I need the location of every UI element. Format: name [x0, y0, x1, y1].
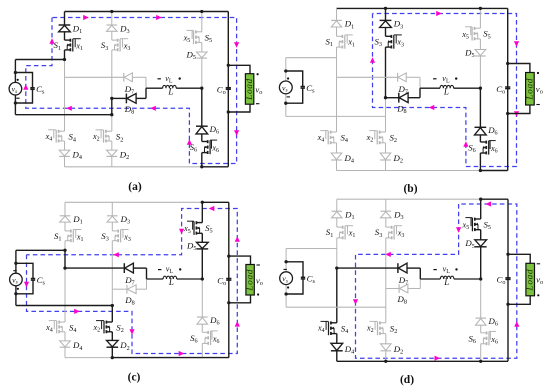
- vs polarity minus (c): [13, 270, 16, 272]
- capacitor Co (a): [226, 88, 231, 90]
- wire D4 to bottom rail (a): [64, 156, 66, 166]
- label Co (a): [217, 85, 226, 97]
- label S6 (a): [190, 142, 198, 154]
- wire S3 source lead down to D8 node (d): [385, 238, 387, 289]
- label D7 (c): [124, 275, 134, 287]
- diode D4 (c): [60, 341, 71, 347]
- load box (c): [246, 265, 256, 296]
- capacitor Co (b): [505, 87, 510, 89]
- label S2 (d): [390, 323, 398, 335]
- wire vs- horizontal (b): [286, 115, 386, 117]
- vs polarity dot (a): [17, 79, 19, 81]
- wire vs+ horizontal (a): [15, 59, 64, 61]
- transistor S2 (c): [96, 321, 112, 334]
- label D5 (b): [464, 47, 474, 59]
- wire S2 drain lead (b): [385, 116, 387, 132]
- wire S4 source to D4 (c): [64, 332, 66, 341]
- diode D1 (d): [332, 211, 343, 218]
- wire D7 row (c): [65, 268, 147, 279]
- diode D5 (c): [197, 242, 209, 249]
- capacitor Cs (d): [301, 277, 305, 279]
- load polarity dot (d): [537, 294, 539, 296]
- svg-text:L: L: [167, 86, 173, 96]
- vs polarity minus (d): [284, 268, 287, 270]
- wire S5 drain lead (b): [479, 8, 481, 28]
- wire top rail right segment (c): [202, 201, 229, 203]
- wire bottom rail mid (d): [386, 360, 481, 362]
- diode D2 (a): [107, 150, 118, 156]
- load polarity minus (c): [257, 264, 260, 266]
- label S4 (c): [69, 323, 77, 335]
- diode D6 (a): [196, 126, 208, 134]
- label x5 gate (a): [183, 33, 191, 44]
- svg-text:(b): (b): [403, 183, 417, 195]
- wire S5 drain lead (a): [201, 12, 203, 32]
- wire S6 source to bottom rail (c): [201, 343, 203, 357]
- label Cs (d): [307, 274, 316, 286]
- wire S2 source to D2 (b): [385, 143, 387, 153]
- label D6 (a): [209, 124, 219, 136]
- diode D2 (d): [381, 344, 392, 351]
- label vL dot (a): [179, 77, 181, 79]
- wire bottom rail left (d): [337, 360, 386, 362]
- label D4 (b): [344, 153, 354, 165]
- wire vs+ horizontal (b): [286, 57, 337, 59]
- vs polarity minus (a): [16, 97, 19, 99]
- label D3 (a): [119, 23, 129, 35]
- wire leg-A drain lead (c): [64, 202, 66, 231]
- label D2 (c): [119, 340, 129, 352]
- wire leg-A mid upper (d): [336, 249, 338, 269]
- diode D4 (a): [59, 150, 70, 156]
- wire S3 source lead down to D8 node (b): [385, 47, 387, 98]
- diode D1 (b): [331, 20, 342, 27]
- wire D7 row (d): [337, 268, 421, 279]
- label x4 gate (b): [317, 133, 325, 144]
- label L (d): [443, 277, 449, 287]
- label x2 gate (b): [366, 133, 374, 144]
- wire bottom rail right (d): [481, 360, 508, 362]
- label D1 (a): [72, 23, 82, 35]
- label D3 (d): [393, 210, 403, 222]
- current direction arrows (b): [370, 11, 519, 147]
- wire S6 source to bottom rail (d): [480, 344, 482, 362]
- wire S5 drain lead (c): [201, 202, 203, 222]
- capacitor Co (c): [226, 279, 231, 281]
- label L (b): [443, 86, 449, 96]
- diode D1 (a): [59, 25, 71, 32]
- label x3 gate (a): [123, 42, 131, 53]
- wire top rail right segment (b): [480, 7, 507, 9]
- vs polarity minus (b): [287, 96, 290, 98]
- junction node dots (d): [284, 198, 509, 363]
- label S3 (d): [375, 227, 383, 239]
- wire S5 source to D5 (a): [201, 43, 203, 53]
- wire S4 source to D4 (a): [64, 141, 66, 150]
- label D7 (d): [398, 275, 408, 287]
- transistor S6 (c): [202, 331, 217, 345]
- label vo (a): [255, 85, 262, 97]
- caption (d): [400, 374, 414, 386]
- wire Co leg (d): [507, 199, 509, 361]
- wire dashed current-path loop (b): [373, 14, 517, 167]
- transistor S4 (a): [48, 130, 64, 143]
- wire S4 drain lead (d): [336, 322, 338, 324]
- svg-text:L: L: [443, 86, 449, 96]
- transistor S1 (d): [337, 226, 353, 240]
- label S5 (b): [483, 29, 491, 41]
- label x3 gate (b): [396, 38, 404, 49]
- transistor S2 (a): [96, 130, 112, 143]
- wire inductor row (c): [147, 278, 203, 280]
- wire D8 row (c): [112, 279, 146, 289]
- wire D6 to S6 (c): [201, 324, 203, 332]
- diode D8 (c): [127, 285, 136, 294]
- wire leg-A mid upper (c): [64, 250, 66, 268]
- wire vs+ horizontal (c): [16, 249, 65, 251]
- svg-text:Load: Load: [245, 78, 255, 101]
- wire leg-B between D8 node and vs- (a): [111, 98, 113, 114]
- label Cs (a): [36, 84, 45, 96]
- transistor S2 (d): [370, 321, 386, 335]
- diode D6 (d): [475, 318, 486, 325]
- wire top rail right segment (a): [202, 11, 229, 13]
- svg-text:(d): (d): [400, 374, 414, 386]
- label D8 (d): [397, 294, 407, 306]
- wire D6 to S6 (a): [201, 133, 203, 141]
- wire D7 row (b): [337, 77, 421, 88]
- diode D8 (b): [399, 93, 408, 103]
- load polarity dot (a): [257, 73, 259, 75]
- wire inductor row (a): [146, 87, 202, 89]
- svg-text:L: L: [168, 277, 174, 287]
- wire D4 to bottom rail (b): [336, 160, 338, 171]
- label D8 (a): [124, 104, 134, 116]
- wire D8 row (b): [386, 88, 421, 98]
- label D5 (a): [186, 50, 196, 62]
- wire S4 source to D4 (d): [336, 334, 338, 344]
- wire Co leg (b): [507, 8, 509, 170]
- wire S1 source lead (a): [64, 50, 66, 60]
- transistor S5 (b): [465, 27, 480, 41]
- label vL (c): [166, 265, 174, 276]
- label D4 (c): [72, 340, 82, 352]
- wire load branch bottom (d): [508, 296, 530, 305]
- diode D3 (a): [107, 25, 118, 31]
- wire leg-A mid lower (c): [64, 268, 66, 322]
- wire S2 drain lead (c): [111, 306, 113, 323]
- load polarity minus (a): [256, 103, 259, 105]
- transistor S3 (a): [112, 39, 128, 52]
- wire bottom rail left (b): [337, 170, 386, 172]
- junction node dots (c): [14, 201, 230, 360]
- label S1 (d): [326, 227, 334, 239]
- wire S4 drain lead (a): [64, 130, 66, 132]
- wire S4 source to D4 (b): [336, 143, 338, 153]
- label D2 (b): [393, 153, 403, 165]
- label S2 (c): [116, 323, 124, 335]
- wire Co leg (a): [227, 12, 229, 167]
- wire D8 row (a): [112, 88, 146, 98]
- wire D6 to S6 (b): [479, 134, 481, 142]
- wire S1 source lead (c): [64, 241, 66, 251]
- label x6 gate (c): [212, 334, 220, 345]
- wire leg-A mid upper (b): [336, 58, 338, 78]
- caption (a): [128, 181, 142, 193]
- wire leg-B drain lead (a): [111, 12, 113, 41]
- label x5 gate (d): [462, 221, 470, 232]
- wire Cs loop (a): [15, 73, 32, 104]
- label S5 (d): [484, 220, 492, 232]
- svg-text:L: L: [443, 277, 449, 287]
- wire leg-B drain lead (c): [111, 202, 113, 231]
- diode D7 (b): [398, 73, 407, 82]
- label S1 (c): [54, 231, 62, 243]
- label S4 (d): [341, 323, 349, 335]
- caption (b): [403, 183, 417, 195]
- label S4 (a): [69, 132, 77, 144]
- wire S5 source to D5 (b): [479, 39, 481, 50]
- label x1 gate (a): [75, 42, 83, 53]
- wire S3 source lead down to D8 node (c): [111, 241, 113, 290]
- wire leg-A drain lead (a): [64, 12, 66, 41]
- junction node dots (b): [284, 7, 509, 172]
- wire source left leg (d): [285, 249, 287, 308]
- label x5 gate (b): [461, 30, 469, 41]
- capacitor Cs (a): [30, 88, 34, 90]
- label vL dot (d): [455, 268, 457, 270]
- wire D5 to L node (b): [479, 56, 481, 88]
- label vL (a): [165, 74, 173, 85]
- wire leg-B between D8 node and vs- (c): [111, 289, 113, 305]
- current direction arrows (c): [24, 206, 240, 356]
- wire load branch top (d): [508, 254, 530, 263]
- load box (d): [526, 263, 536, 296]
- wire top rail left segment (b): [337, 7, 481, 9]
- label vo (b): [536, 84, 543, 96]
- label vo (c): [256, 275, 263, 287]
- wire leg-B drain lead (d): [385, 199, 387, 227]
- wire bottom rail right (b): [480, 170, 507, 172]
- label x2 gate (c): [92, 323, 100, 334]
- wire S2 drain lead (a): [111, 115, 113, 132]
- transistor S6 (d): [481, 331, 496, 345]
- wire S2 source to D2 (a): [111, 141, 113, 150]
- label vo (d): [536, 275, 543, 287]
- label D3 (b): [393, 19, 403, 31]
- wire D7 row (a): [65, 77, 147, 88]
- label S2 (a): [116, 132, 124, 144]
- wire leg-B drain lead (b): [385, 8, 387, 36]
- transistor S1 (b): [337, 35, 353, 49]
- wire vs- horizontal (d): [286, 306, 386, 308]
- svg-text:Load: Load: [525, 78, 535, 101]
- load polarity minus (b): [536, 104, 539, 106]
- wire load branch bottom (b): [508, 105, 530, 114]
- capacitor Cs (c): [31, 279, 35, 281]
- transistor S2 (b): [369, 131, 385, 145]
- wire Co leg (c): [228, 202, 230, 357]
- wire dashed current-path loop (a): [26, 18, 237, 164]
- wire vs- horizontal (a): [15, 114, 111, 116]
- transistor S4 (d): [321, 321, 337, 335]
- label D8 (b): [396, 103, 406, 115]
- transistor S4 (b): [320, 131, 336, 145]
- label D6 (c): [209, 315, 219, 327]
- wire load branch top (a): [228, 65, 250, 73]
- wire dashed current-path loop (c): [27, 209, 238, 354]
- transistor S3 (d): [386, 226, 402, 240]
- label x1 gate (b): [347, 38, 355, 49]
- diode D5 (b): [475, 50, 486, 57]
- wire D5 to L node (c): [201, 249, 203, 279]
- svg-text:(a): (a): [128, 181, 142, 193]
- transistor S5 (c): [187, 221, 202, 235]
- load polarity dot (b): [537, 72, 539, 74]
- label x6 gate (a): [211, 144, 219, 155]
- wire bottom rail right (a): [202, 166, 229, 168]
- diode D8 (a): [126, 94, 136, 104]
- label Cs (b): [306, 83, 315, 95]
- label Cs (c): [37, 275, 46, 287]
- svg-text:(c): (c): [128, 372, 141, 384]
- wire D2 to bottom rail (a): [111, 156, 113, 166]
- wire S2 source to D2 (d): [385, 334, 387, 344]
- wire S5 source to D5 (d): [480, 230, 482, 241]
- voltage source vs (a): [9, 82, 22, 95]
- inductor L (b): [440, 85, 454, 88]
- wire D2 to bottom rail (b): [385, 160, 387, 171]
- transistor S6 (b): [480, 141, 495, 155]
- wire S6 source to bottom rail (a): [201, 153, 203, 167]
- wire dashed current-path loop (d): [356, 204, 517, 358]
- label D5 (c): [186, 240, 196, 252]
- wire load branch top (b): [508, 64, 530, 73]
- wire S2 drain lead (d): [385, 307, 387, 323]
- diode D1 (c): [60, 216, 71, 222]
- junction node dots (a): [14, 10, 230, 169]
- label D4 (a): [72, 149, 82, 161]
- wire D8 row (d): [386, 279, 421, 289]
- diode D6 (c): [197, 317, 208, 324]
- wire leg-B between D8 node and vs- (d): [385, 289, 387, 308]
- current direction arrows (a): [23, 15, 239, 145]
- wire S2 source to D2 (c): [111, 332, 113, 341]
- label x2 gate (d): [366, 324, 374, 335]
- wire L node to D6 (d): [480, 279, 482, 318]
- label vL (b): [442, 74, 450, 85]
- wire source left leg (a): [14, 60, 16, 115]
- label D2 (d): [393, 344, 403, 356]
- svg-text:Load: Load: [246, 269, 256, 292]
- label x1 gate (c): [76, 232, 84, 243]
- voltage source vs (b): [279, 81, 292, 94]
- diode D2 (c): [107, 340, 119, 347]
- transistor S6 (a): [202, 140, 217, 154]
- wire leg-B between D8 node and vs- (b): [385, 98, 387, 117]
- diode D3 (c): [107, 216, 118, 222]
- diode D6 (b): [475, 127, 487, 135]
- load box (a): [245, 74, 255, 105]
- capacitor Cs (b): [301, 87, 305, 89]
- label vL minus (b): [433, 78, 436, 80]
- wire inductor row (d): [420, 278, 480, 280]
- label D8 (c): [124, 295, 134, 307]
- wire S1 source lead (d): [336, 238, 338, 249]
- diode D3 (b): [380, 20, 392, 27]
- inductor L (d): [440, 276, 454, 279]
- wire D2 to bottom rail (d): [385, 351, 387, 362]
- wire top rail left segment (a): [65, 11, 202, 13]
- wire L node to D6 (a): [201, 88, 203, 126]
- caption (c): [128, 372, 141, 384]
- wire leg-A drain lead (d): [336, 199, 338, 227]
- transistor S5 (d): [465, 218, 480, 232]
- load box (b): [525, 73, 535, 106]
- label S6 (d): [469, 333, 477, 345]
- wire bottom rail mid (a): [112, 166, 202, 168]
- diode D7 (d): [398, 263, 407, 273]
- wire vs- horizontal (c): [16, 305, 112, 307]
- wire top rail left segment (c): [65, 201, 202, 203]
- wire source left leg (b): [285, 58, 287, 117]
- label S2 (b): [390, 133, 398, 145]
- voltage source vs (c): [10, 273, 23, 286]
- transistor S3 (c): [112, 230, 128, 243]
- label Co (d): [497, 275, 506, 287]
- wire S6 source to bottom rail (b): [479, 153, 481, 171]
- transistor S5 (a): [187, 30, 202, 44]
- label S3 (c): [101, 231, 109, 243]
- wire S4 drain lead (b): [336, 131, 338, 133]
- label L (c): [168, 277, 174, 287]
- label vL minus (c): [158, 269, 161, 271]
- wire D2 to bottom rail (c): [111, 347, 113, 357]
- vs polarity dot (b): [287, 77, 289, 79]
- wire leg-A mid lower (d): [336, 268, 338, 323]
- capacitor Co (d): [505, 278, 510, 280]
- label S5 (c): [205, 223, 213, 235]
- label D1 (d): [344, 210, 354, 222]
- label D5 (d): [464, 238, 474, 250]
- wire top rail right segment (d): [481, 198, 508, 200]
- label x3 gate (c): [123, 232, 131, 243]
- wire S5 source to D5 (c): [201, 233, 203, 243]
- label x2 gate (a): [92, 132, 100, 143]
- wire vs+ horizontal (d): [286, 248, 337, 250]
- label x6 gate (d): [490, 335, 498, 346]
- wire D5 to L node (d): [480, 247, 482, 279]
- label D7 (a): [124, 84, 134, 96]
- label D6 (b): [487, 125, 497, 137]
- label x4 gate (a): [45, 132, 53, 143]
- diode D7 (c): [124, 263, 133, 273]
- label Co (b): [496, 84, 505, 96]
- transistor S1 (c): [65, 230, 81, 243]
- load polarity minus (d): [537, 263, 540, 265]
- wire Cs loop (b): [286, 71, 303, 103]
- label x5 gate (c): [183, 224, 191, 235]
- wire L node to D6 (c): [201, 279, 203, 317]
- wire bottom rail mid (c): [112, 357, 202, 359]
- wire inductor row (b): [420, 87, 480, 89]
- wire leg-A mid lower (a): [64, 77, 66, 131]
- vs polarity dot (d): [287, 286, 289, 288]
- wire Cs loop (d): [286, 262, 303, 294]
- wire bottom rail left (c): [65, 357, 112, 359]
- label x1 gate (d): [348, 229, 356, 240]
- wire load branch bottom (c): [229, 295, 251, 303]
